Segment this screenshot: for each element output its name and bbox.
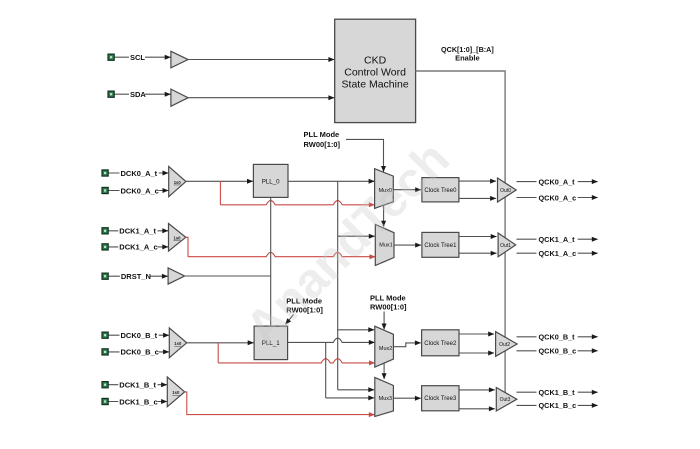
wire output QCK1_A_c [517, 252, 598, 254]
wire Mux2 select cascade to Mux3 [383, 363, 385, 379]
svg-text:Clock Tree2: Clock Tree2 [424, 341, 457, 347]
wire Clock Tree0 to Out0 (c) [459, 197, 496, 199]
wire output QCK1_B_t [517, 391, 598, 393]
svg-text:Control Word: Control Word [344, 66, 406, 78]
wire PLL_0 to PLL_1 reset vertical [270, 197, 272, 326]
mux Mux3 [375, 377, 394, 416]
pad SCL [108, 54, 114, 60]
svg-text:QCK1_B_c: QCK1_B_c [539, 401, 577, 410]
wire SCL buffer to CKD [188, 59, 334, 61]
block PLL_1 [254, 326, 288, 360]
svg-text:1s0: 1s0 [174, 236, 182, 241]
svg-text:Mux3: Mux3 [379, 396, 392, 402]
wire output QCK0_A_t [517, 181, 598, 183]
label DCK1_B_c [118, 397, 157, 406]
wire PLL_0 net vertical [337, 181, 339, 389]
svg-text:State Machine: State Machine [342, 78, 409, 90]
block Clock Tree2 [422, 330, 459, 356]
svg-text:QCK0_A_t: QCK0_A_t [539, 177, 576, 186]
buffer Out3 [496, 388, 517, 412]
svg-text:CKD: CKD [364, 54, 387, 66]
wire PLL_1 net to Mux3 [326, 397, 374, 399]
wire Mux2 out to Clock Tree2 [393, 343, 420, 347]
block Clock Tree3 [422, 386, 459, 411]
wire SDA buffer to CKD [188, 97, 334, 99]
svg-text:RW00[1:0]: RW00[1:0] [304, 140, 341, 149]
svg-text:SDA: SDA [130, 90, 146, 99]
buffer Out0 [498, 178, 517, 202]
wire Clock Tree3 to Out3 (t) [459, 389, 495, 391]
buffer U_DCK0A 1s0 [169, 166, 186, 196]
wire SDA pad to buffer [114, 93, 170, 95]
wire PLL mode select to Mux2 [383, 312, 385, 330]
pad DCK0_A_c [102, 187, 108, 193]
wire DRST_N pad to buffer [109, 275, 168, 277]
pad DCK0_B_t [102, 332, 108, 338]
svg-text:Clock Tree1: Clock Tree1 [424, 243, 457, 249]
buffer Out1 [498, 233, 516, 257]
svg-text:PLL Mode: PLL Mode [304, 130, 340, 139]
wire red DCK1_A bypass to Mux1 [186, 237, 188, 256]
pad DCK1_A_c [102, 244, 108, 250]
block PLL_0 [253, 164, 288, 197]
pad DCK0_A_t [102, 170, 108, 176]
block Clock Tree1 [422, 232, 459, 257]
svg-text:DCK0_B_c: DCK0_B_c [121, 348, 159, 357]
wire PLL_1 net vertical [325, 342, 327, 398]
pad DCK1_B_c [102, 398, 108, 404]
label QCK[1:0]_[B:A] Enable [441, 45, 494, 63]
wire DCK1_A_t pad to buffer [109, 230, 169, 232]
svg-text:Mux2: Mux2 [379, 346, 392, 352]
svg-text:DRST_N: DRST_N [121, 272, 151, 281]
svg-text:QCK1_B_t: QCK1_B_t [539, 388, 576, 397]
label DCK0_B_c [120, 347, 159, 356]
svg-text:SCL: SCL [130, 53, 145, 62]
wire DCK0_B_t pad to buffer [109, 334, 169, 336]
wire Mux1 out to Clock Tree1 [394, 244, 421, 246]
wire Mux0 out to Clock Tree0 [393, 189, 421, 191]
pad DCK1_B_t [102, 382, 108, 388]
buffer Out2 [496, 332, 517, 357]
svg-text:DCK1_A_t: DCK1_A_t [119, 227, 156, 236]
wire DCK0_A_c pad to buffer [109, 190, 169, 192]
wire PLL_0 net to Mux2 [338, 329, 374, 331]
svg-text:QCK1_A_t: QCK1_A_t [539, 235, 576, 244]
svg-text:1s0: 1s0 [174, 180, 182, 185]
wire output QCK1_B_c [517, 404, 598, 406]
svg-text:QCK1_A_c: QCK1_A_c [539, 249, 577, 258]
svg-text:DCK0_A_c: DCK0_A_c [121, 186, 159, 195]
wire PLL mode callout arrow to PLL_1 [286, 315, 294, 325]
svg-text:1s0: 1s0 [174, 341, 182, 346]
buffer U_DCK0B 1s0 [169, 328, 186, 358]
svg-text:Clock Tree3: Clock Tree3 [424, 396, 457, 402]
wire Clock Tree0 to Out0 (t) [459, 180, 496, 182]
label DCK0_A_c [120, 186, 159, 195]
wire PLL mode select to Mux0 [346, 139, 384, 171]
wire Clock Tree1 to Out1 (c) [459, 252, 497, 254]
label DRST_N [120, 271, 150, 280]
label PLL Mode RW00[1:0] top [304, 130, 341, 149]
svg-text:Out1: Out1 [500, 243, 511, 249]
mux Mux0 [375, 169, 394, 209]
wire DCK1_B_c pad to buffer [109, 401, 167, 403]
label DCK0_A_t [120, 168, 159, 177]
wire DRST_N to PLL reset net [185, 275, 271, 277]
wire PLL_0 net to Mux3 [338, 389, 374, 391]
svg-text:DCK1_B_c: DCK1_B_c [119, 397, 157, 406]
svg-text:PLL Mode: PLL Mode [370, 293, 406, 302]
wire DCK0_A_t pad to buffer [109, 172, 169, 174]
svg-text:1s0: 1s0 [172, 390, 180, 395]
pad SDA [108, 91, 114, 97]
pad DCK1_A_t [102, 228, 108, 234]
buffer U_SDA [171, 89, 188, 106]
svg-text:Out3: Out3 [500, 397, 511, 403]
wire Clock Tree3 to Out3 (c) [459, 408, 495, 410]
label DCK1_A_t [118, 226, 157, 235]
wire PLL_0 out to Mux0 [288, 180, 374, 182]
wire output QCK0_B_c [517, 350, 598, 352]
buffer U_DCK1B 1s0 [167, 377, 184, 407]
label SCL [129, 52, 145, 61]
wire SCL pad to buffer [114, 56, 170, 58]
wire DCK1_B_t pad to buffer [109, 384, 167, 386]
svg-text:Out0: Out0 [500, 188, 511, 194]
svg-text:QCK0_B_c: QCK0_B_c [539, 347, 577, 356]
wire DCK0_A buffer to PLL_0 [186, 180, 253, 182]
svg-text:Out2: Out2 [499, 342, 510, 348]
wire Clock Tree2 to Out2 (t) [459, 333, 494, 335]
wire Mux0 select cascade to Mux1 [383, 205, 385, 226]
svg-text:QCK0_A_c: QCK0_A_c [539, 193, 577, 202]
wire output QCK1_A_t [517, 238, 598, 240]
wire Mux3 out to Clock Tree3 [393, 397, 420, 399]
svg-text:QCK[1:0]_[B:A]: QCK[1:0]_[B:A] [441, 45, 494, 54]
wire red DCK0_A bypass to Mux0 [219, 181, 221, 205]
wire Clock Tree2 to Out2 (c) [459, 352, 494, 354]
svg-text:DCK0_A_t: DCK0_A_t [121, 169, 158, 178]
wire DCK1_A_c pad to buffer [109, 246, 169, 248]
block U1 CKD Control Word State Machine [335, 19, 416, 122]
buffer U_SCL [171, 51, 188, 68]
label PLL Mode RW00[1:0] at PLL_1 [286, 297, 323, 315]
label SDA [129, 89, 145, 98]
wire output QCK0_A_c [517, 197, 598, 199]
mux Mux1 [375, 224, 394, 265]
svg-text:PLL_0: PLL_0 [262, 178, 280, 185]
svg-text:DCK1_A_c: DCK1_A_c [119, 243, 157, 252]
label DCK0_B_t [120, 330, 159, 339]
wire PLL_0 net to Mux1 [338, 235, 375, 237]
label PLL Mode RW00[1:0] at Mux2 [370, 293, 407, 311]
svg-text:DCK1_B_t: DCK1_B_t [119, 381, 156, 390]
wire PLL_1 out to Mux2 [288, 338, 375, 342]
buffer U_DCK1A 1s0 [169, 224, 186, 252]
wire DCK0_B buffer to PLL_1 [187, 342, 254, 344]
block Clock Tree0 [422, 178, 459, 202]
wire Clock Tree1 to Out1 (t) [459, 236, 497, 238]
pad DRST_N [102, 273, 108, 279]
svg-text:RW00[1:0]: RW00[1:0] [370, 302, 407, 311]
wire output QCK0_B_t [517, 336, 598, 338]
wire red DCK0_B bypass to Mux2 [217, 343, 219, 363]
svg-text:DCK0_B_t: DCK0_B_t [121, 331, 158, 340]
wire red DCK1_B bypass to Mux3 [185, 392, 375, 415]
label DCK1_A_c [118, 242, 157, 251]
mux Mux2 [375, 326, 394, 367]
svg-text:Enable: Enable [455, 54, 480, 63]
svg-text:QCK0_B_t: QCK0_B_t [539, 333, 576, 342]
wire enable net CKD to Out3 [416, 71, 506, 392]
buffer U_DRST [168, 268, 185, 284]
label DCK1_B_t [118, 380, 157, 389]
wire DCK0_B_c pad to buffer [109, 351, 169, 353]
pad DCK0_B_c [102, 349, 108, 355]
